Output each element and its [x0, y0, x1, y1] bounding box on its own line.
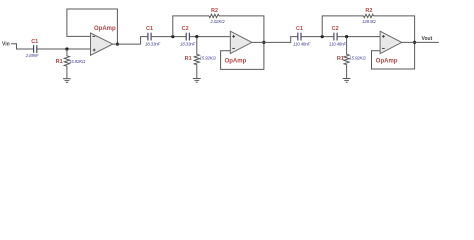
svg-text:15.92KΩ: 15.92KΩ	[200, 56, 217, 61]
wire R2 to U2 output (stage 2)	[219, 16, 264, 43]
wire C1 to C2 (stage 2)	[151, 36, 186, 38]
svg-text:18.33nF: 18.33nF	[145, 42, 161, 47]
svg-text:C1: C1	[296, 26, 303, 32]
wire U1 feedback loop	[67, 9, 118, 44]
op-amp U1	[91, 33, 113, 55]
wire C2 to op-amp U3	[337, 36, 380, 38]
wire C1 to op-amp U1	[37, 48, 91, 50]
wire U3 output to Vout	[402, 41, 439, 43]
wire C1 to C2 (stage 3)	[301, 36, 334, 38]
junction U3 output (node Vout)	[413, 41, 416, 44]
svg-text:R2: R2	[365, 8, 372, 14]
wire U2 output to stage 3	[252, 37, 298, 43]
ground (stage 3)	[343, 79, 351, 83]
ground (stage 1)	[63, 79, 71, 83]
capacitor C2 (stage 2)	[186, 33, 189, 41]
op-amp U2	[230, 31, 252, 53]
capacitor C1 (stage 2)	[148, 33, 151, 41]
svg-text:C1: C1	[146, 26, 153, 32]
capacitor C1 (stage 3)	[298, 33, 301, 41]
junction node D	[321, 35, 324, 38]
svg-text:OpAmp: OpAmp	[225, 58, 247, 64]
svg-text:R1: R1	[337, 56, 344, 62]
svg-text:128.9Ω: 128.9Ω	[362, 19, 376, 24]
wire Vin stub	[11, 44, 34, 49]
resistor R1 (stage 2)	[194, 37, 199, 79]
wire U3 feedback loop	[372, 42, 415, 69]
junction node B	[171, 35, 174, 38]
svg-text:R1: R1	[185, 56, 192, 62]
svg-text:OpAmp: OpAmp	[376, 58, 398, 64]
wire U2 feedback loop	[221, 42, 264, 69]
svg-text:110.48nF: 110.48nF	[293, 42, 310, 47]
svg-text:2.02KΩ: 2.02KΩ	[210, 19, 226, 24]
junction node E	[345, 35, 348, 38]
node Vin	[2, 42, 10, 48]
svg-text:C1: C1	[31, 39, 38, 45]
svg-text:Vout: Vout	[422, 36, 433, 42]
svg-text:OpAmp: OpAmp	[94, 26, 116, 32]
wire U1 output to stage 2	[113, 37, 148, 45]
svg-text:18.33nF: 18.33nF	[180, 42, 196, 47]
resistor R2 (stage 2)	[209, 14, 219, 17]
svg-text:110.48nF: 110.48nF	[329, 42, 346, 47]
junction U2 output	[262, 41, 265, 44]
wire C2 to op-amp U2	[189, 36, 230, 38]
svg-text:R2: R2	[211, 8, 218, 14]
capacitor C1 (stage 1)	[34, 45, 37, 53]
wire R2 to U3 output (stage 3)	[374, 16, 415, 43]
resistor R1 (stage 1)	[64, 49, 69, 79]
svg-text:2.89nF: 2.89nF	[25, 53, 39, 58]
svg-text:C2: C2	[332, 26, 339, 32]
resistor R2 (stage 3)	[364, 14, 374, 17]
op-amp U3	[380, 31, 402, 53]
svg-text:15.92KΩ: 15.92KΩ	[349, 56, 366, 61]
junction node C	[195, 35, 198, 38]
junction U1 output	[116, 43, 119, 46]
svg-text:15.92KΩ: 15.92KΩ	[69, 59, 86, 64]
svg-text:C2: C2	[182, 26, 189, 32]
svg-text:Vin: Vin	[2, 42, 10, 48]
capacitor C2 (stage 3)	[334, 33, 337, 41]
wire node B to R2 (stage 2)	[173, 16, 209, 37]
resistor R1 (stage 3)	[344, 37, 349, 79]
ground (stage 2)	[193, 79, 201, 83]
wire node D to R2 (stage 3)	[322, 16, 363, 37]
junction node A	[65, 47, 68, 50]
svg-text:R1: R1	[56, 59, 63, 65]
